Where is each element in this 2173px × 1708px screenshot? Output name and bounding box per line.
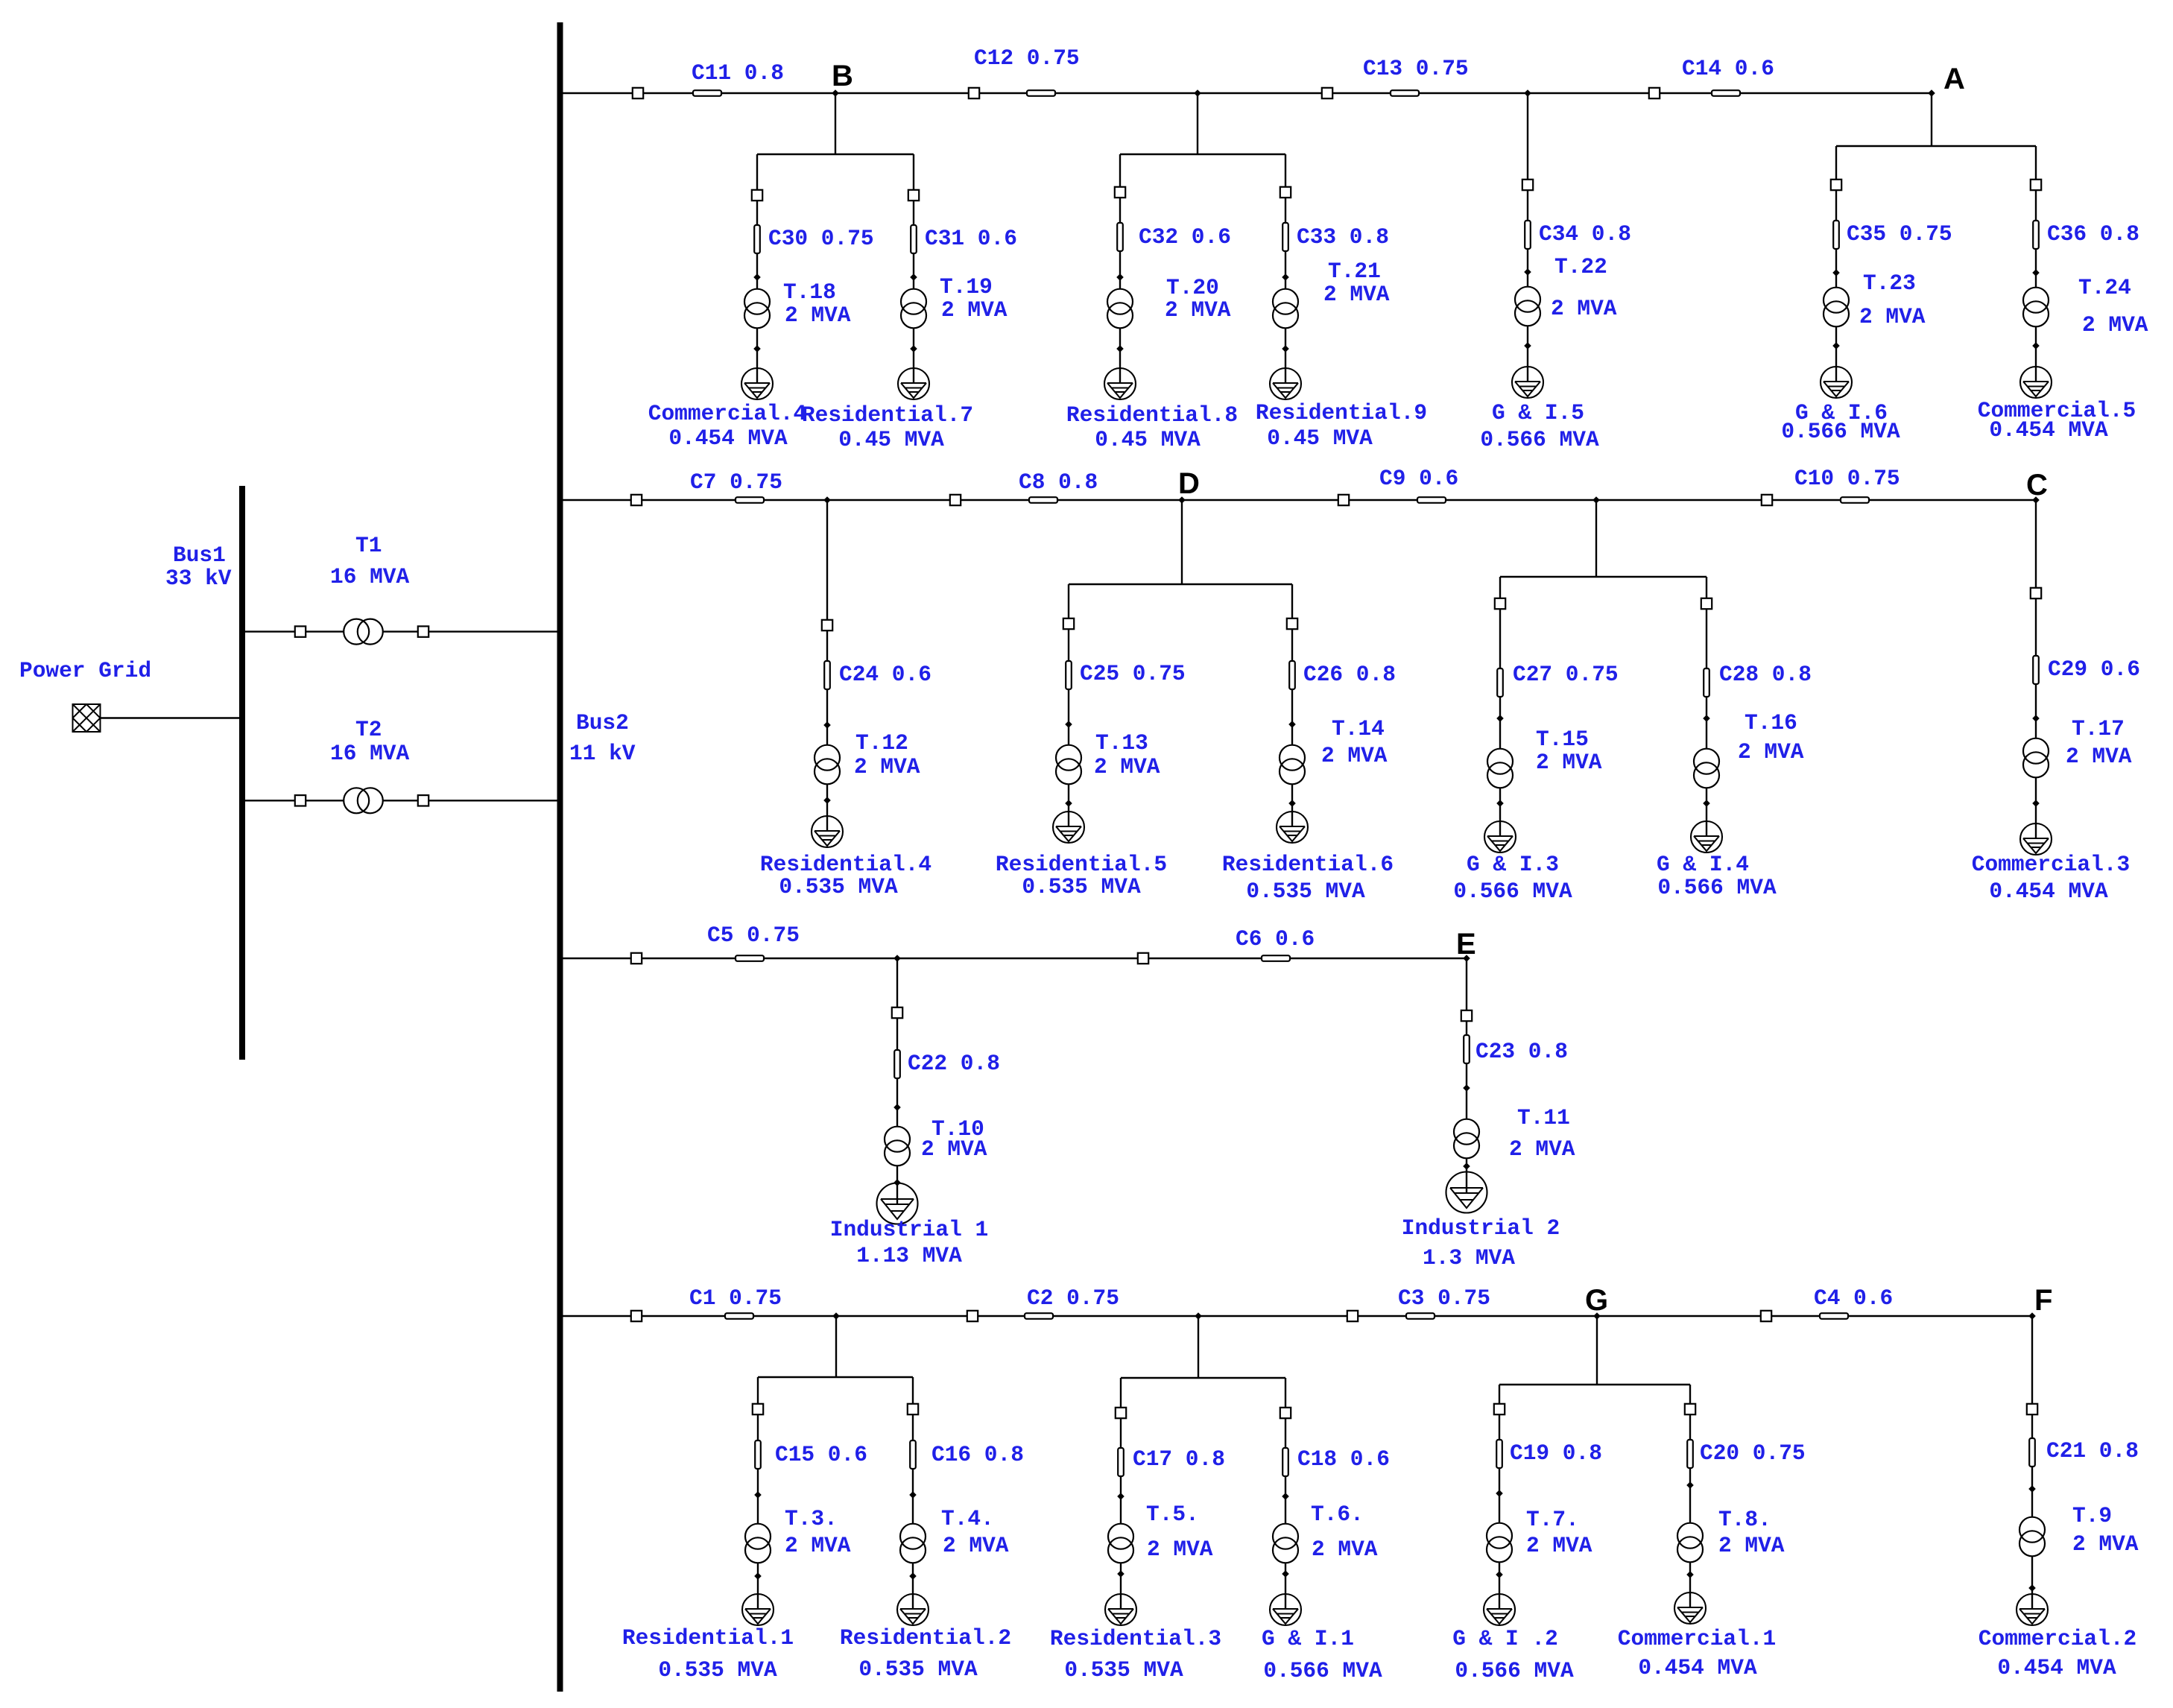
svg-text:0.454 MVA: 0.454 MVA [1989, 879, 2108, 904]
cable C32 [1117, 223, 1123, 251]
wire T.21 to load Residential.9 [1285, 328, 1286, 384]
node G junction [1593, 1312, 1601, 1320]
svg-text:T.3.: T.3. [785, 1506, 838, 1531]
wire C23 to transformer T.11 [1466, 1021, 1467, 1119]
svg-text:E: E [1456, 928, 1476, 961]
wire C33 to transformer T.21 [1285, 197, 1286, 289]
svg-text:2 MVA: 2 MVA [1147, 1537, 1213, 1562]
svg-text:0.535 MVA: 0.535 MVA [1064, 1657, 1183, 1683]
wire C36 upper [2035, 146, 2037, 180]
svg-text:0.566 MVA: 0.566 MVA [1263, 1658, 1382, 1683]
svg-text:G & I.4: G & I.4 [1657, 852, 1749, 877]
cable C34 [1525, 221, 1531, 249]
cable C17 [1118, 1448, 1124, 1476]
breaker C14 [1649, 88, 1660, 98]
wire T.17 to load Commercial.3 [2035, 777, 2037, 839]
transformer T.17 [2023, 738, 2049, 778]
wire C35 upper [1835, 146, 1837, 180]
svg-text:C32 0.6: C32 0.6 [1139, 224, 1231, 250]
load Commercial.4 [741, 368, 773, 399]
junction node above T.7. [1496, 1490, 1503, 1497]
svg-text:0.535 MVA: 0.535 MVA [779, 874, 898, 899]
svg-text:C15 0.6: C15 0.6 [775, 1442, 867, 1467]
cable C25 [1066, 661, 1072, 689]
cable C7 [736, 497, 764, 503]
svg-text:B: B [832, 60, 853, 92]
svg-text:T.14: T.14 [1332, 716, 1385, 741]
wire C34 to transformer T.22 [1527, 190, 1528, 287]
svg-text:T.5.: T.5. [1146, 1502, 1199, 1527]
wire C24 upper [826, 500, 828, 620]
svg-text:T.20: T.20 [1166, 275, 1219, 300]
node A junction [1928, 89, 1935, 97]
cable C16 [910, 1440, 916, 1469]
cable C3 [1406, 1313, 1435, 1319]
svg-text:A: A [1943, 63, 1965, 95]
svg-text:2 MVA: 2 MVA [1718, 1533, 1785, 1558]
junction node above T.10 [893, 1104, 901, 1111]
svg-text:C1 0.75: C1 0.75 [689, 1285, 782, 1311]
svg-text:2 MVA: 2 MVA [1312, 1537, 1378, 1562]
breaker C22 [892, 1008, 902, 1018]
busbar Bus2 11 kV [557, 22, 563, 1692]
svg-text:2 MVA: 2 MVA [1323, 282, 1390, 307]
svg-text:0.454 MVA: 0.454 MVA [1638, 1655, 1757, 1680]
wire node G branch bar [1499, 1384, 1690, 1385]
svg-text:2 MVA: 2 MVA [1509, 1136, 1575, 1162]
wire feeder 4 main [560, 1315, 2033, 1317]
svg-text:Residential.5: Residential.5 [996, 852, 1167, 877]
breaker C19 [1494, 1404, 1505, 1414]
transformer T.5. [1108, 1524, 1133, 1563]
transformer T.10 [885, 1127, 910, 1166]
wire C27 to transformer T.15 [1499, 609, 1501, 749]
breaker C34 [1522, 180, 1533, 190]
svg-text:C7 0.75: C7 0.75 [690, 469, 782, 495]
junction node above load Industrial 2 [1463, 1163, 1470, 1170]
junction node above load Residential.7 [910, 345, 917, 352]
svg-text:T.23: T.23 [1863, 271, 1916, 296]
svg-text:0.566 MVA: 0.566 MVA [1657, 875, 1777, 900]
load Residential.5 [1053, 812, 1084, 843]
transformer T.20 [1107, 289, 1133, 329]
svg-text:T.18: T.18 [783, 279, 836, 305]
cable C5 [736, 955, 764, 961]
svg-text:C9 0.6: C9 0.6 [1379, 466, 1458, 491]
wire feeder4 first branch drop [835, 1316, 837, 1377]
transformer T.4. [900, 1524, 926, 1563]
breaker T2 LV side [418, 795, 428, 806]
junction node above load Residential.8 [1116, 345, 1124, 352]
svg-text:0.535 MVA: 0.535 MVA [858, 1657, 978, 1682]
cable C14 [1712, 90, 1740, 96]
wire C17 to transformer T.5. [1120, 1418, 1122, 1524]
breaker C10 [1762, 495, 1772, 505]
wire C26 upper [1291, 584, 1293, 619]
svg-text:2 MVA: 2 MVA [1321, 743, 1388, 768]
junction node above T.14 [1288, 721, 1296, 728]
junction node above T.21 [1282, 273, 1289, 281]
svg-text:C25 0.75: C25 0.75 [1080, 661, 1186, 686]
cable C10 [1841, 497, 1869, 503]
wire T.22 to load G & I.5 [1527, 326, 1528, 382]
node F junction [2028, 1312, 2036, 1320]
breaker T1 HV side [295, 626, 306, 636]
load Commercial.3 [2020, 823, 2052, 855]
wire C20 to transformer T.8. [1689, 1414, 1691, 1523]
load Residential.6 [1277, 812, 1308, 843]
junction feeder1 C12-C13 [1194, 89, 1201, 97]
svg-text:16 MVA: 16 MVA [330, 564, 410, 589]
transformer T.7. [1487, 1523, 1512, 1563]
svg-text:C13 0.75: C13 0.75 [1363, 56, 1469, 81]
svg-text:Commercial.4: Commercial.4 [648, 401, 806, 426]
transformer T.12 [815, 745, 840, 785]
breaker C28 [1701, 598, 1712, 609]
wire C34 upper [1527, 93, 1528, 180]
breaker C29 [2031, 588, 2041, 598]
cable C12 [1027, 90, 1055, 96]
junction node above T.24 [2032, 269, 2040, 276]
wire C20 upper [1689, 1385, 1691, 1404]
wire Bus1 to T2 [245, 800, 344, 801]
transformer T.3. [745, 1524, 771, 1563]
svg-text:C20 0.75: C20 0.75 [1700, 1440, 1806, 1466]
load Industrial 2 [1446, 1172, 1487, 1213]
wire T.15 to load G & I.3 [1499, 788, 1501, 837]
cable C18 [1282, 1448, 1288, 1476]
junction node above load G & I.1 [1282, 1570, 1289, 1578]
breaker C36 [2031, 180, 2041, 190]
svg-text:0.45 MVA: 0.45 MVA [1267, 426, 1373, 451]
wire C15 to transformer T.3. [757, 1414, 759, 1524]
load Residential.3 [1105, 1594, 1136, 1625]
wire T.14 to load Residential.6 [1291, 784, 1293, 827]
wire C24 to transformer T.12 [826, 630, 828, 745]
svg-text:T.6.: T.6. [1311, 1502, 1364, 1527]
wire C22 to transformer T.10 [896, 1018, 898, 1127]
cable C31 [911, 225, 917, 253]
svg-text:T1: T1 [355, 533, 382, 558]
svg-text:C28 0.8: C28 0.8 [1719, 662, 1812, 687]
svg-text:D: D [1178, 467, 1200, 500]
junction node above T.17 [2032, 715, 2040, 722]
breaker C26 [1287, 619, 1297, 629]
junction feeder4 first branch tap [832, 1312, 840, 1320]
junction node above T.20 [1116, 273, 1124, 281]
junction node above T.19 [910, 273, 917, 281]
svg-text:T.16: T.16 [1745, 710, 1797, 736]
wire C16 to transformer T.4. [912, 1414, 914, 1524]
load G & I .2 [1484, 1594, 1515, 1625]
breaker T2 HV side [295, 795, 306, 806]
junction node above T.3. [754, 1491, 762, 1499]
transformer T.13 [1056, 745, 1081, 785]
breaker C33 [1280, 187, 1291, 197]
cable C35 [1833, 221, 1839, 249]
junction node above load G & I.5 [1524, 342, 1531, 349]
svg-text:T.9: T.9 [2072, 1503, 2112, 1528]
wire C18 to transformer T.6. [1285, 1418, 1286, 1524]
svg-text:C26 0.8: C26 0.8 [1303, 662, 1396, 687]
junction node above T.11 [1463, 1084, 1470, 1092]
wire C19 to transformer T.7. [1499, 1414, 1500, 1523]
wire C19 upper [1499, 1385, 1500, 1404]
wire T.8. to load Commercial.1 [1689, 1562, 1691, 1608]
wire C32 upper [1119, 154, 1121, 187]
wire feeder2 second branch bar [1500, 576, 1707, 578]
svg-text:0.45 MVA: 0.45 MVA [1095, 427, 1201, 452]
svg-text:Residential.3: Residential.3 [1050, 1626, 1221, 1651]
transformer T.24 [2023, 288, 2049, 327]
svg-text:1.3 MVA: 1.3 MVA [1423, 1245, 1515, 1271]
wire C30 upper [756, 154, 758, 190]
transformer T1 [344, 619, 383, 645]
junction feeder1 C34 tap [1524, 89, 1531, 97]
svg-text:C5 0.75: C5 0.75 [707, 923, 800, 948]
svg-text:0.45 MVA: 0.45 MVA [838, 427, 944, 452]
junction node above T.12 [823, 721, 831, 729]
breaker T1 LV side [418, 626, 428, 636]
junction feeder2 C24 tap [823, 496, 831, 504]
wire C21 to transformer T.9 [2031, 1414, 2033, 1517]
wire feeder1 second branch drop [1197, 93, 1198, 154]
svg-text:T.22: T.22 [1554, 254, 1607, 279]
svg-text:G & I.5: G & I.5 [1492, 400, 1584, 426]
svg-text:Residential.7: Residential.7 [802, 402, 973, 428]
svg-text:0.566 MVA: 0.566 MVA [1453, 879, 1572, 904]
transformer T.18 [744, 289, 770, 329]
wire T.10 to load Industrial 1 [896, 1165, 898, 1203]
junction node above T.23 [1832, 269, 1840, 276]
svg-text:C6 0.6: C6 0.6 [1236, 926, 1315, 952]
cable C28 [1704, 668, 1709, 697]
svg-text:T.11: T.11 [1517, 1105, 1570, 1130]
load G & I.3 [1484, 821, 1516, 853]
svg-text:2 MVA: 2 MVA [854, 754, 920, 779]
wire T.12 to load Residential.4 [826, 784, 828, 832]
junction node above T.13 [1065, 721, 1072, 728]
svg-text:2 MVA: 2 MVA [1165, 297, 1231, 323]
svg-text:Residential.2: Residential.2 [840, 1625, 1011, 1651]
svg-text:Bus2: Bus2 [576, 710, 629, 736]
junction node above T.8. [1686, 1481, 1694, 1489]
load Residential.8 [1104, 368, 1136, 399]
junction node above load Residential.3 [1117, 1570, 1125, 1578]
svg-text:C10 0.75: C10 0.75 [1794, 466, 1900, 491]
wire C27 upper [1499, 577, 1501, 598]
breaker C24 [822, 620, 832, 630]
svg-text:C31 0.6: C31 0.6 [925, 226, 1017, 251]
cable C30 [754, 225, 760, 253]
junction node above T.18 [753, 273, 761, 281]
load Industrial 1 [877, 1183, 918, 1224]
breaker feeder1 bus side [633, 88, 643, 98]
svg-text:T.4.: T.4. [941, 1506, 994, 1531]
svg-text:T2: T2 [355, 717, 382, 742]
wire C35 to transformer T.23 [1835, 190, 1837, 288]
load Commercial.5 [2020, 367, 2052, 398]
svg-text:16 MVA: 16 MVA [330, 741, 410, 766]
wire C16 upper [912, 1377, 914, 1404]
transformer T.16 [1694, 749, 1719, 788]
cable C36 [2033, 221, 2039, 249]
svg-text:Residential.8: Residential.8 [1066, 402, 1238, 428]
transformer T.23 [1824, 288, 1849, 327]
svg-text:0.535 MVA: 0.535 MVA [1246, 879, 1365, 904]
junction node above load G & I.6 [1832, 342, 1840, 349]
transformer T.22 [1515, 287, 1540, 326]
svg-text:C27 0.75: C27 0.75 [1513, 662, 1619, 687]
wire C21 upper [2031, 1316, 2033, 1404]
wire T.24 to load Commercial.5 [2035, 326, 2037, 382]
svg-text:Industrial 1: Industrial 1 [830, 1217, 988, 1242]
transformer T.8. [1677, 1523, 1703, 1563]
breaker C4 [1761, 1311, 1771, 1321]
svg-text:C16 0.8: C16 0.8 [931, 1442, 1024, 1467]
wire T.16 to load G & I.4 [1706, 788, 1707, 837]
wire T1 to Bus2 [383, 630, 557, 632]
svg-text:Commercial.1: Commercial.1 [1618, 1626, 1776, 1651]
junction node above load Commercial.2 [2028, 1584, 2036, 1592]
svg-text:T.19: T.19 [940, 274, 993, 300]
transformer T.19 [901, 289, 926, 329]
svg-text:2 MVA: 2 MVA [2066, 744, 2132, 769]
svg-text:T.12: T.12 [855, 730, 908, 756]
load G & I.6 [1821, 367, 1852, 398]
svg-text:G & I .2: G & I .2 [1452, 1626, 1558, 1651]
wire C22 upper [896, 958, 898, 1008]
svg-text:11 kV: 11 kV [569, 741, 636, 766]
wire C18 upper [1285, 1378, 1286, 1408]
wire C29 upper [2035, 500, 2037, 588]
svg-text:2 MVA: 2 MVA [1551, 296, 1617, 321]
junction node above load Residential.1 [754, 1572, 762, 1580]
svg-text:T.21: T.21 [1328, 259, 1381, 284]
wire feeder 3 main [560, 958, 1467, 959]
load Residential.9 [1270, 368, 1301, 399]
wire T.23 to load G & I.6 [1835, 326, 1837, 382]
breaker C13 [1322, 88, 1332, 98]
svg-text:2 MVA: 2 MVA [921, 1136, 987, 1162]
svg-text:2 MVA: 2 MVA [785, 303, 851, 328]
breaker C35 [1831, 180, 1841, 190]
cable C27 [1497, 668, 1503, 697]
load G & I.1 [1270, 1594, 1301, 1625]
wire T.3. to load Residential.1 [757, 1563, 759, 1610]
svg-text:C11 0.8: C11 0.8 [692, 60, 784, 86]
wire T.9 to load Commercial.2 [2031, 1556, 2033, 1610]
svg-text:C3 0.75: C3 0.75 [1398, 1285, 1490, 1311]
cable C1 [725, 1313, 753, 1319]
junction feeder3 C22 tap [893, 955, 901, 962]
junction node above T.15 [1496, 715, 1504, 722]
junction node above load G & I.3 [1496, 800, 1504, 807]
svg-text:2 MVA: 2 MVA [1094, 754, 1160, 779]
wire C17 upper [1120, 1378, 1122, 1408]
wire node A branch bar [1836, 145, 2036, 147]
svg-text:C24 0.6: C24 0.6 [839, 662, 931, 687]
svg-text:Industrial 2: Industrial 2 [1402, 1215, 1560, 1241]
svg-text:0.454 MVA: 0.454 MVA [1997, 1655, 2116, 1680]
wire feeder1 second branch bar [1120, 154, 1285, 155]
wire T.7. to load G & I .2 [1499, 1562, 1500, 1610]
svg-text:1.13 MVA: 1.13 MVA [856, 1243, 962, 1268]
node E junction [1463, 955, 1470, 962]
breaker C6 [1138, 953, 1148, 964]
junction feeder2 branch tap [1592, 496, 1600, 504]
transformer T.11 [1454, 1119, 1479, 1159]
svg-text:C21 0.8: C21 0.8 [2046, 1438, 2139, 1464]
wire feeder4 first branch bar [758, 1376, 913, 1378]
wire Bus1 to T1 [245, 630, 344, 632]
svg-text:C18 0.6: C18 0.6 [1297, 1446, 1390, 1472]
junction node above load Residential.5 [1065, 800, 1072, 807]
wire feeder2 second branch drop [1595, 500, 1597, 577]
cable C11 [693, 90, 721, 96]
svg-text:Residential.9: Residential.9 [1256, 400, 1427, 426]
wire C23 upper [1466, 958, 1467, 1010]
breaker C18 [1280, 1408, 1291, 1418]
cable C19 [1496, 1440, 1502, 1468]
svg-text:Commercial.3: Commercial.3 [1972, 852, 2130, 877]
svg-text:Bus1: Bus1 [173, 543, 226, 568]
svg-text:T.7.: T.7. [1526, 1507, 1579, 1532]
cable C20 [1687, 1440, 1693, 1468]
junction node above T.9 [2028, 1485, 2036, 1493]
svg-text:C4 0.6: C4 0.6 [1814, 1285, 1893, 1311]
svg-text:2 MVA: 2 MVA [943, 1533, 1009, 1558]
wire feeder 1 main [560, 92, 1932, 94]
junction node above T.6. [1282, 1493, 1289, 1500]
breaker C27 [1495, 598, 1505, 609]
breaker C8 [950, 495, 961, 505]
breaker feeder2 bus side [631, 495, 642, 505]
wire node B drop [835, 93, 836, 154]
wire node A drop [1931, 93, 1932, 146]
svg-text:C17 0.8: C17 0.8 [1133, 1446, 1225, 1472]
svg-text:0.566 MVA: 0.566 MVA [1455, 1658, 1574, 1683]
cable C9 [1417, 497, 1446, 503]
wire C15 upper [757, 1377, 759, 1404]
svg-text:2 MVA: 2 MVA [1526, 1533, 1592, 1558]
svg-text:C19 0.8: C19 0.8 [1510, 1440, 1602, 1466]
junction node above load Residential.4 [823, 797, 831, 804]
wire T.5. to load Residential.3 [1120, 1563, 1122, 1610]
junction node above load Commercial.5 [2032, 342, 2040, 349]
load Commercial.2 [2017, 1594, 2048, 1625]
svg-text:2 MVA: 2 MVA [1859, 304, 1926, 329]
svg-text:0.566 MVA: 0.566 MVA [1781, 419, 1900, 444]
svg-text:T.8.: T.8. [1718, 1507, 1771, 1532]
load Residential.2 [897, 1594, 929, 1625]
wire C26 to transformer T.14 [1291, 629, 1293, 745]
svg-text:G & I.1: G & I.1 [1262, 1626, 1354, 1651]
breaker C30 [752, 190, 762, 200]
load Commercial.1 [1674, 1592, 1706, 1624]
wire C33 upper [1285, 154, 1286, 187]
transformer T.14 [1280, 745, 1305, 785]
svg-text:0.535 MVA: 0.535 MVA [658, 1657, 777, 1683]
cable C24 [824, 661, 830, 689]
wire power grid to Bus1 [101, 717, 240, 718]
wire T.19 to load Residential.7 [913, 328, 914, 384]
junction node above load G & I.4 [1703, 800, 1710, 807]
breaker C2 [967, 1311, 978, 1321]
junction node above load Residential.9 [1282, 345, 1289, 352]
cable C29 [2033, 656, 2039, 684]
cable C22 [894, 1050, 900, 1078]
